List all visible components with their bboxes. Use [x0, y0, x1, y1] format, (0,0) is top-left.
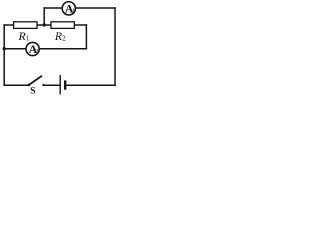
- resistor R1: [14, 22, 37, 43]
- svg-text:1: 1: [72, 8, 75, 15]
- wire top right (A1 to right corner): [76, 7, 115, 9]
- wire drop vertical right of R2: [85, 25, 87, 49]
- switch S: [28, 76, 45, 96]
- wire A1 branch vertical: [43, 8, 45, 25]
- wire right vertical: [114, 8, 116, 85]
- wire bottom left (to switch): [4, 84, 28, 86]
- ammeter A2: [26, 42, 39, 56]
- battery cell: short thick plate (right): [64, 80, 66, 89]
- wire middle: R2 to drop corner: [74, 24, 86, 26]
- svg-text:S: S: [30, 85, 35, 95]
- wire A2 branch left: [4, 48, 26, 50]
- resistor R2: [51, 22, 74, 43]
- wire middle: left wire to R1: [4, 24, 13, 26]
- wire A2 branch right: [39, 48, 86, 50]
- ammeter A1: [62, 2, 75, 16]
- svg-text:2: 2: [62, 35, 66, 42]
- wire left vertical: [3, 25, 5, 85]
- battery cell: long plate (left): [59, 75, 61, 94]
- node junction dot between R1 and R2 (A1 branch): [43, 23, 46, 26]
- wire bottom middle (switch to battery): [44, 84, 60, 86]
- wire top left (branch corner to A1): [44, 7, 62, 9]
- svg-text:2: 2: [35, 48, 38, 55]
- wire middle: R1 to R2: [37, 24, 51, 26]
- wire bottom right (battery to right corner): [66, 84, 115, 86]
- node junction dot on left wire (A2 branch): [2, 47, 5, 50]
